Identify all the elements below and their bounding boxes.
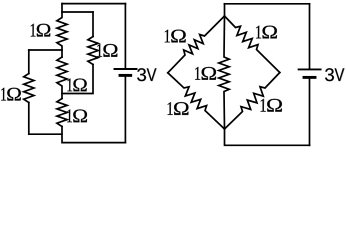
wire: R5 bottom lead + bottom wire to battery V1: [62, 127, 125, 143]
label R9 value 1ohm: [261, 99, 282, 112]
wire: node M1 horizontal: [29, 49, 62, 51]
wire: R3 top lead: [28, 50, 30, 74]
resistor R9 1ohm bottom-right edge: [225, 73, 280, 130]
label R1 value 1ohm: [31, 24, 51, 37]
label R2 value 1ohm: [97, 44, 117, 57]
battery V2 top lead: [309, 4, 311, 69]
battery V2 long plate: [299, 68, 321, 70]
battery V1 bottom lead: [124, 77, 126, 143]
resistor R7 1ohm top-right edge: [225, 16, 280, 73]
wire: R3 bottom lead: [28, 103, 30, 135]
label R6 value 1ohm: [165, 30, 186, 43]
label R4 value 1ohm: [67, 79, 86, 92]
wire: top, diamond top to battery V2: [225, 3, 310, 5]
wire: outer top, node T to battery V1: [62, 3, 125, 5]
wire: R2 bottom lead to node M2: [62, 65, 93, 94]
wire: bottom-left horizontal to node M3: [29, 133, 62, 135]
label R3 value 1ohm: [1, 88, 21, 101]
wire: R2 top lead: [92, 12, 94, 37]
resistor R6 1ohm top-left edge: [168, 16, 225, 73]
label R5 value 1ohm: [67, 109, 87, 122]
label V1 value 3V: [137, 68, 156, 81]
resistor R4 1ohm middle vertical: [57, 57, 67, 99]
battery V1 short plate: [120, 74, 131, 77]
resistor R8 1ohm bottom-left edge: [168, 73, 225, 129]
battery V1 top lead: [124, 4, 126, 69]
label V2 value 3V: [325, 68, 344, 81]
resistor R3 1ohm left vertical: [24, 74, 34, 103]
resistor R5 1ohm bottom vertical: [57, 99, 67, 127]
wire: diamond bottom lead + bottom wire to battery V2: [225, 129, 310, 145]
wire: inner top, node T to R2: [62, 11, 93, 13]
wire: diamond top vertex lead: [224, 4, 226, 16]
battery V2 short plate: [304, 76, 315, 79]
battery V1 long plate: [115, 68, 137, 70]
label R10 value 1ohm: [195, 67, 216, 80]
label R8 value 1ohm: [168, 102, 189, 115]
resistor R2 1ohm right vertical: [88, 37, 98, 65]
battery V2 bottom lead: [309, 79, 311, 146]
label R7 value 1ohm: [256, 26, 277, 39]
resistor R10 1ohm middle vertical: [219, 16, 229, 129]
resistor R1 1ohm top-left vertical: [57, 4, 67, 57]
